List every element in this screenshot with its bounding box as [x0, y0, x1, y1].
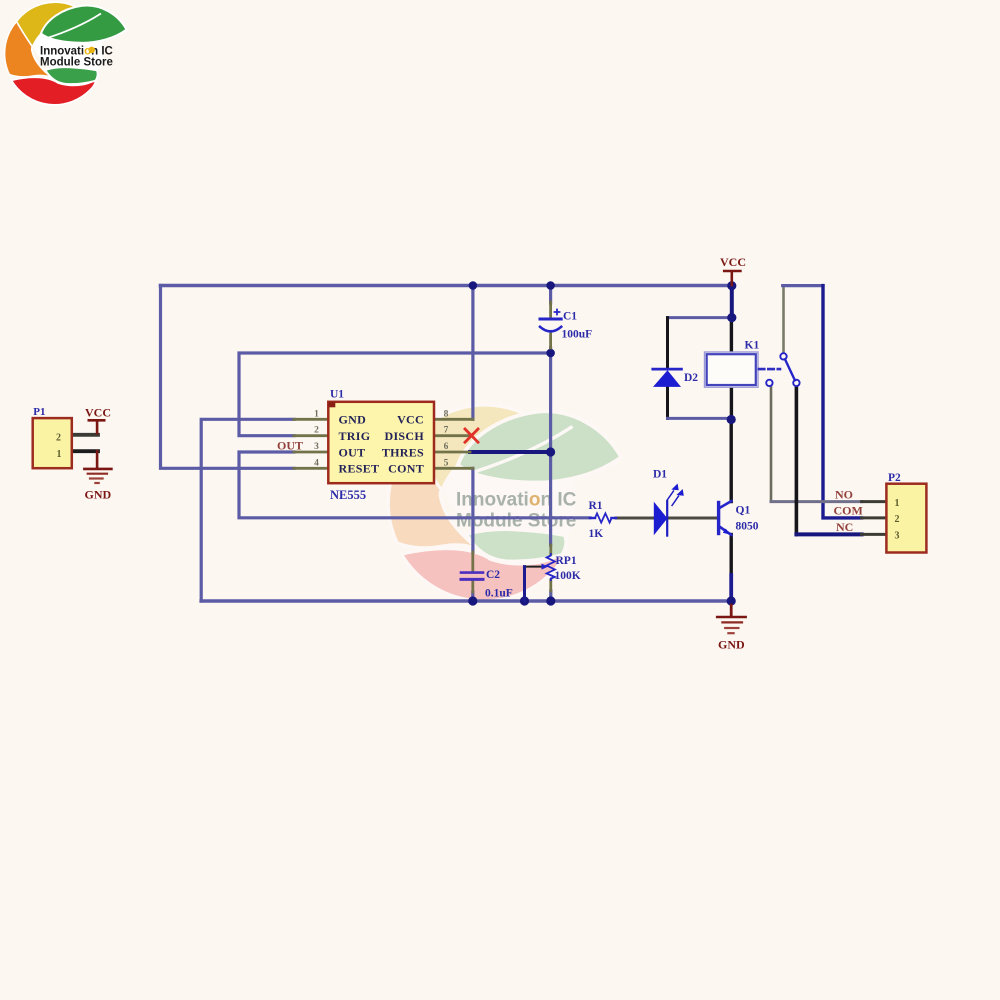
svg-text:D1: D1 — [653, 469, 667, 481]
wire: THRES net (navy) — [470, 450, 551, 454]
svg-text:GND: GND — [718, 638, 745, 652]
wire: COM drop to P2 — [823, 286, 862, 518]
svg-text:NE555: NE555 — [330, 488, 366, 502]
relay switch contacts — [766, 353, 799, 386]
diode D2 — [653, 369, 699, 387]
svg-text:D2: D2 — [684, 372, 698, 384]
wire: bottom GND rail — [201, 599, 731, 603]
svg-text:0.1uF: 0.1uF — [485, 588, 513, 600]
net label NC — [836, 520, 853, 534]
svg-text:8: 8 — [444, 409, 449, 419]
svg-text:P2: P2 — [888, 472, 901, 484]
svg-text:6: 6 — [444, 442, 449, 452]
svg-text:OUT: OUT — [277, 439, 303, 453]
junction dots — [468, 281, 736, 606]
transistor Q1 — [719, 501, 759, 535]
svg-text:VCC: VCC — [397, 413, 424, 427]
resistor R1 — [589, 500, 612, 540]
op-amp timer U1 NE555 — [314, 389, 449, 503]
svg-text:2: 2 — [895, 514, 900, 525]
svg-text:4: 4 — [314, 458, 319, 468]
store logo top-left — [5, 2, 127, 105]
svg-text:C2: C2 — [486, 569, 500, 581]
svg-text:2: 2 — [314, 426, 319, 436]
svg-text:NC: NC — [836, 520, 853, 534]
wire: LED row segments — [590, 517, 718, 519]
svg-text:TRIG: TRIG — [339, 429, 371, 443]
chip pin stubs left — [294, 419, 328, 468]
svg-text:100K: 100K — [555, 570, 581, 582]
svg-text:THRES: THRES — [382, 445, 424, 459]
svg-text:GND: GND — [85, 488, 112, 502]
wire: D2 vertical — [666, 318, 669, 419]
svg-text:DISCH: DISCH — [384, 429, 424, 443]
svg-text:VCC: VCC — [720, 255, 746, 269]
wire: left loop to RESET — [161, 286, 295, 469]
svg-text:RESET: RESET — [339, 462, 380, 476]
svg-text:K1: K1 — [745, 340, 760, 352]
wire: VCC column to relay node (navy) — [730, 286, 734, 318]
wire: pin8 riser — [471, 286, 474, 420]
wire: Q1 collector — [730, 420, 733, 502]
wire: P2 pin stubs — [862, 502, 887, 535]
connector P1 — [33, 406, 72, 468]
svg-text:CONT: CONT — [388, 462, 424, 476]
capacitor C1 — [540, 302, 592, 348]
svg-text:5: 5 — [444, 458, 449, 468]
wire: OUT loop — [239, 452, 590, 518]
connector P2 — [886, 472, 926, 553]
svg-text:GND: GND — [339, 413, 367, 427]
wire: switch common riser — [782, 286, 785, 354]
svg-text:R1: R1 — [589, 500, 603, 512]
svg-text:COM: COM — [834, 504, 863, 518]
svg-text:Q1: Q1 — [736, 505, 751, 517]
wire: CONT/C2 column — [471, 468, 474, 601]
wire: D2 top link — [668, 316, 732, 319]
svg-text:P1: P1 — [33, 406, 45, 418]
svg-text:VCC: VCC — [85, 406, 111, 420]
svg-text:C1: C1 — [563, 311, 577, 323]
ground GND (left) — [84, 451, 111, 501]
potentiometer RP1 — [525, 545, 581, 601]
wire: Q1 emitter to ground — [730, 535, 733, 602]
svg-text:1K: 1K — [589, 528, 604, 540]
wire: mid column upper — [549, 286, 552, 304]
chip pin stubs right — [434, 419, 473, 468]
net label COM — [834, 504, 863, 518]
ground GND (right) — [717, 605, 745, 652]
watermark text — [456, 490, 577, 532]
wire: D2 bottom link — [668, 417, 732, 420]
wire: mid column lower — [549, 348, 552, 601]
svg-text:7: 7 — [444, 426, 449, 436]
svg-text:U1: U1 — [330, 389, 344, 401]
svg-text:100uF: 100uF — [562, 329, 593, 341]
svg-text:2: 2 — [56, 433, 61, 444]
relay K1 coil — [705, 340, 760, 388]
svg-text:3: 3 — [895, 530, 900, 541]
svg-text:Module Store: Module Store — [40, 57, 113, 69]
wire: VCC top rail — [161, 284, 732, 288]
svg-text:3: 3 — [314, 442, 319, 452]
net label OUT — [277, 439, 303, 453]
wire: relay coil pins (black) — [730, 318, 733, 420]
LED D1 — [653, 469, 684, 536]
wire: GND pin1 route — [201, 419, 294, 601]
wire: NC riser and row (navy) — [796, 386, 861, 534]
capacitor C2 — [461, 552, 513, 600]
svg-text:8050: 8050 — [736, 521, 759, 533]
svg-text:1: 1 — [57, 449, 62, 460]
power VCC (right) — [720, 255, 746, 285]
relay linkage dashed — [759, 368, 780, 371]
svg-text:1: 1 — [314, 409, 319, 419]
wire: P1 pin stubs — [72, 435, 98, 451]
svg-text:RP1: RP1 — [556, 555, 577, 567]
watermark logo (center, faded) — [388, 405, 621, 601]
svg-text:OUT: OUT — [339, 445, 366, 459]
net label NO — [835, 488, 853, 502]
wire: top right link — [783, 284, 823, 287]
svg-text:1: 1 — [895, 498, 900, 509]
svg-text:NO: NO — [835, 488, 853, 502]
no-connect X on pin 7 — [465, 429, 478, 442]
wire: NO riser and row — [771, 386, 862, 502]
power VCC (left) — [85, 406, 111, 434]
wire: TRIG loop — [239, 353, 551, 436]
